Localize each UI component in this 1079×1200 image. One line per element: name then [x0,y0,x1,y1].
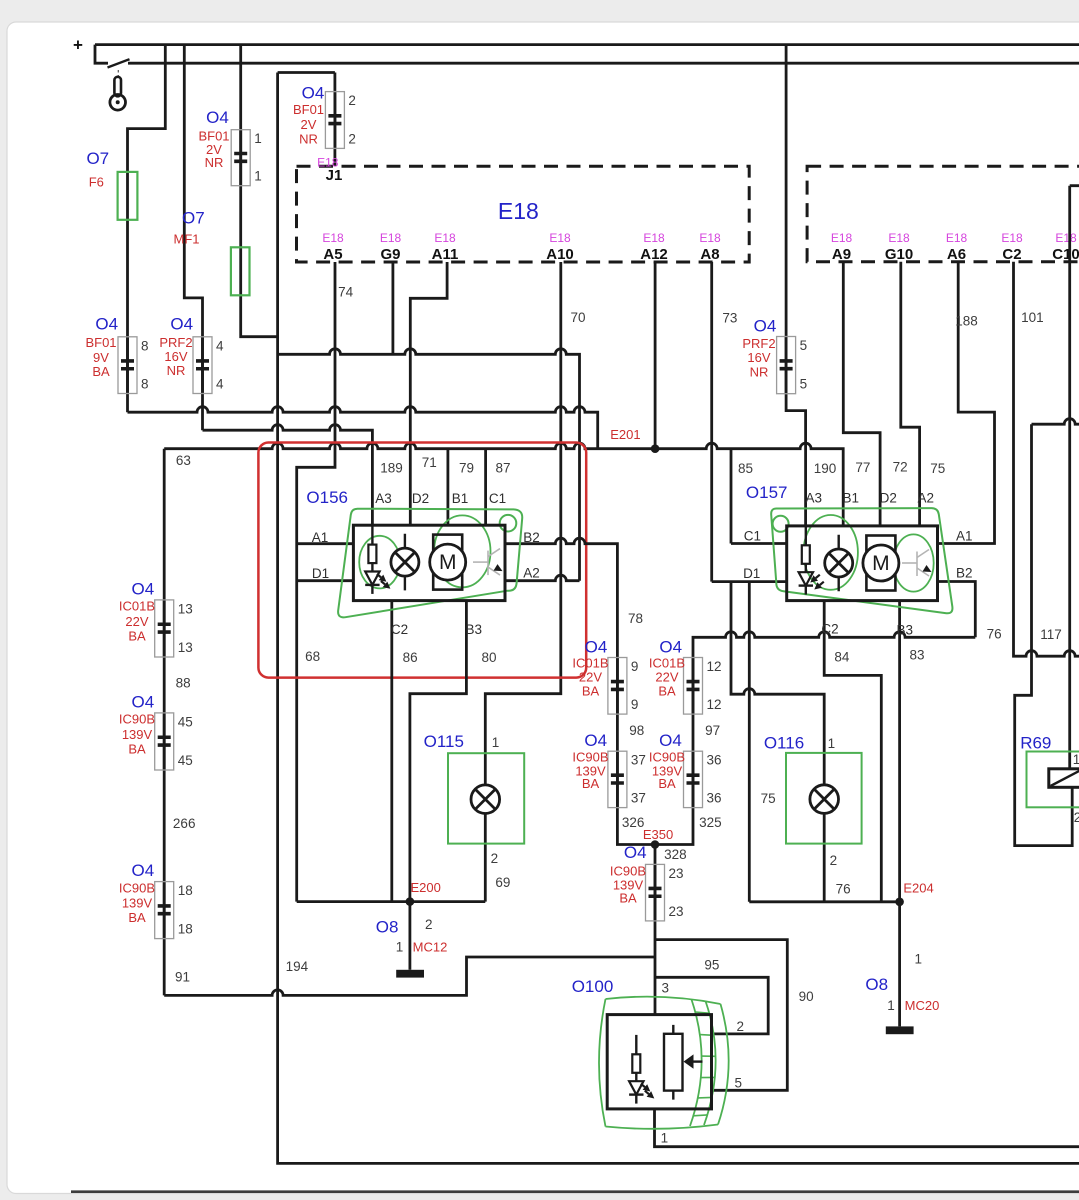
svg-text:37: 37 [631,753,646,768]
wire to R69 coil return [1015,424,1072,845]
wire connector to J1 pin [333,73,336,167]
svg-text:A11: A11 [432,246,459,263]
wire bus row 2 [128,407,598,449]
svg-text:12: 12 [707,697,722,712]
connector O4 IC01B 22V BA left [119,579,193,657]
svg-text:O4: O4 [132,861,155,880]
svg-text:C10: C10 [1052,246,1079,263]
svg-text:71: 71 [422,455,437,470]
module O157 box [787,526,938,601]
wire 90 to O100 pin 5 [655,940,787,1091]
svg-text:E18: E18 [831,231,853,245]
wire MF1 column [241,45,278,337]
svg-text:B3: B3 [897,623,914,638]
svg-text:2: 2 [1074,810,1079,825]
svg-text:E18: E18 [699,231,721,245]
ground O8 MC20 [886,1026,914,1034]
svg-text:C2: C2 [1002,246,1021,263]
svg-text:BA: BA [619,891,637,906]
svg-text:A3: A3 [805,490,822,505]
svg-text:83: 83 [909,648,924,663]
svg-text:E18: E18 [1055,231,1077,245]
svg-text:E204: E204 [903,880,933,895]
svg-text:68: 68 [305,649,320,664]
LED indicator in O157 [799,526,824,595]
svg-text:37: 37 [631,791,646,806]
svg-text:90: 90 [799,989,814,1004]
svg-text:22V: 22V [125,614,148,629]
svg-text:45: 45 [178,753,193,768]
svg-text:NR: NR [205,155,224,170]
svg-text:A5: A5 [323,246,342,263]
wire 85 branch to O157 C1 [731,449,787,544]
svg-text:A1: A1 [312,530,329,545]
wire 190 column [786,45,806,526]
wire 71 A11 to O156 D2 [410,262,447,525]
svg-text:117: 117 [1040,627,1062,642]
svg-text:194: 194 [286,959,309,974]
svg-text:O116: O116 [764,734,804,753]
svg-text:O4: O4 [585,637,608,656]
connector O4 BF01 9V BA [85,315,148,394]
connector O4 IC90B 139V BA mid [572,731,646,807]
svg-text:1: 1 [254,169,262,184]
svg-text:O4: O4 [659,731,682,750]
svg-text:188: 188 [955,313,978,328]
fuse O7 MF1 [231,247,250,295]
lamp O115 [471,785,500,814]
wire 101 C2 down and right [1014,262,1079,657]
module O156 box [353,525,505,600]
svg-text:189: 189 [380,461,403,476]
fuse O7 F6 [118,172,138,220]
svg-text:101: 101 [1021,310,1044,325]
connector O4 PRF2 16V NR right [742,317,807,394]
wire + supply rail (top bus 1) [95,43,1079,46]
connector O4 IC90B 139V BA mid right [649,731,722,807]
svg-text:O4: O4 [206,108,229,127]
svg-text:A2: A2 [917,490,934,505]
LED indicator in O156 [365,525,390,594]
svg-text:87: 87 [495,460,510,475]
wire E204 row [749,900,899,903]
svg-text:69: 69 [495,875,510,890]
wire O156 pin D1 row [297,579,354,582]
connector O4 PRF2 16V NR left [159,315,224,394]
svg-text:O4: O4 [624,843,647,862]
svg-text:13: 13 [178,640,193,655]
svg-text:74: 74 [338,285,354,300]
svg-text:O100: O100 [572,977,614,996]
svg-text:1: 1 [887,998,895,1013]
wire 1 to ground MC20 [898,902,901,1027]
svg-text:BA: BA [128,910,146,925]
node E201 [651,444,660,453]
svg-text:139V: 139V [122,896,153,911]
wire 73/85 A8 down [710,262,713,582]
svg-text:E18: E18 [498,198,539,224]
svg-text:139V: 139V [122,727,153,742]
svg-text:1: 1 [254,131,262,146]
wire O100 pin 1 bus [655,1109,1079,1147]
svg-text:9: 9 [631,659,639,674]
svg-text:O4: O4 [754,317,777,336]
svg-text:E18: E18 [888,231,910,245]
svg-text:O4: O4 [659,637,682,656]
svg-text:E18: E18 [434,231,456,245]
svg-text:O157: O157 [746,483,788,502]
svg-text:J1: J1 [326,167,343,184]
wire bus E201 row to O157 B1 [164,443,843,526]
svg-text:IC01B: IC01B [572,655,608,670]
svg-text:190: 190 [814,461,837,476]
svg-text:B1: B1 [452,491,469,506]
wire 117 C10 to relay R69 [1070,186,1079,769]
svg-text:1: 1 [396,940,404,955]
svg-text:76: 76 [987,626,1002,641]
svg-text:E18: E18 [946,231,968,245]
lamp unit O116 [786,753,862,844]
connector O4 IC01B 22V BA mid [572,637,638,714]
svg-text:E200: E200 [411,880,441,895]
wire 83 O157 B3 to E204 [898,601,901,902]
svg-text:E18: E18 [380,231,402,245]
svg-text:23: 23 [669,866,684,881]
wire 74 A5 to A1/D1/68/E200 [297,262,335,902]
wire 79 to O156 B1 [446,449,449,526]
svg-text:PRF2: PRF2 [742,336,775,351]
wire 97 row to connector 12 [655,632,975,845]
lock unit O100 green barrel [599,997,729,1129]
svg-text:O4: O4 [95,315,118,334]
schematic page bottom frame line [71,1190,1079,1193]
wire A12 to E201 [654,262,657,449]
svg-text:22V: 22V [579,670,602,685]
wire 75 branch down [748,582,751,902]
svg-text:A12: A12 [640,246,668,263]
svg-text:O115: O115 [424,732,464,751]
svg-text:2: 2 [348,131,356,146]
svg-text:IC01B: IC01B [119,599,155,614]
wire 80 O156 B3 down [410,601,467,902]
wire O156 A2 row [505,575,580,581]
svg-text:2: 2 [737,1019,745,1034]
svg-text:77: 77 [855,460,870,475]
connector O4 IC01B 22V BA mid right [649,637,722,714]
transistor in O156 [473,549,503,576]
svg-text:F6: F6 [89,174,104,189]
svg-text:9V: 9V [93,350,109,365]
svg-text:75: 75 [930,461,945,476]
wire bus row 1 to O156 A2 [278,349,580,581]
node E204 [895,898,904,907]
svg-text:E201: E201 [610,427,640,442]
wire 70 A10 to O115 [485,262,561,902]
svg-text:80: 80 [481,650,496,665]
svg-text:63: 63 [176,453,191,468]
svg-text:22V: 22V [655,670,678,685]
wire PRF2 column [184,45,202,431]
svg-text:13: 13 [178,601,193,616]
wire main vertical column 194 / bottom bus [278,73,1079,1164]
svg-text:8: 8 [141,338,149,353]
wire G9 to bus row 1 [391,262,394,354]
svg-text:86: 86 [403,650,418,665]
svg-text:E18: E18 [322,231,344,245]
svg-text:A10: A10 [546,246,574,263]
wire 86 O156 C2 down [390,601,393,902]
svg-text:O4: O4 [132,579,155,598]
svg-text:1: 1 [828,736,836,751]
svg-text:12: 12 [707,659,722,674]
svg-text:BF01: BF01 [85,335,116,350]
wire bus row 3 / 189 to O156 A3 [203,425,373,526]
svg-text:88: 88 [176,675,191,690]
wire 328 to O100 pin 3 [654,845,657,1015]
relay R69 [1027,752,1079,808]
wire O157 pin D1 row [712,580,787,583]
svg-text:16V: 16V [747,350,770,365]
svg-text:G10: G10 [885,246,913,263]
lamp O116 [810,785,839,814]
svg-text:BA: BA [92,364,110,379]
svg-text:2: 2 [491,851,499,866]
svg-text:1: 1 [492,735,500,750]
svg-text:MC20: MC20 [905,998,940,1013]
svg-text:72: 72 [893,460,908,475]
svg-text:BA: BA [658,776,676,791]
connector O4 BF01 2V NR #1 [198,108,261,186]
LED indicator in O100 [629,1035,654,1104]
svg-text:A6: A6 [947,246,966,263]
svg-text:2V: 2V [301,117,317,132]
svg-text:C2: C2 [821,622,838,637]
svg-text:18: 18 [178,922,193,937]
svg-text:76: 76 [836,882,851,897]
sensor element in O100 [664,1025,703,1100]
svg-text:O8: O8 [376,918,399,937]
svg-text:IC90B: IC90B [610,864,646,879]
wire to O100 pin 2 [655,977,768,1034]
svg-text:A1: A1 [956,529,973,544]
connector O4 IC90B 139V BA left low [119,861,193,939]
svg-text:O4: O4 [170,315,193,334]
wire to ground MC12 [408,902,411,970]
svg-text:2: 2 [425,917,433,932]
svg-text:84: 84 [834,649,850,664]
svg-text:M: M [872,552,890,575]
wire 84 O157 C2 down [824,601,881,902]
svg-text:70: 70 [570,310,585,325]
svg-text:78: 78 [628,611,643,626]
svg-text:O156: O156 [306,488,348,507]
svg-text:91: 91 [175,970,190,985]
node E350 [651,840,660,849]
svg-text:97: 97 [705,723,720,738]
svg-text:IC90B: IC90B [119,880,155,895]
svg-text:MF1: MF1 [174,232,200,247]
svg-text:BA: BA [658,684,676,699]
svg-text:R69: R69 [1020,733,1051,752]
svg-text:IC90B: IC90B [119,712,155,727]
svg-text:C1: C1 [489,491,506,506]
svg-text:D2: D2 [412,491,429,506]
motor M in O156 [430,535,466,590]
svg-text:73: 73 [722,310,737,325]
svg-text:75: 75 [761,791,776,806]
connector box E18 right (A9/G10/A6/C2/C10) [807,166,1079,261]
connector box E18 (J1/A5/G9/A11/A10/A12/A8) [297,166,750,262]
svg-text:BF01: BF01 [293,102,324,117]
svg-text:O4: O4 [132,692,155,711]
svg-text:85: 85 [738,461,753,476]
svg-text:B2: B2 [523,530,540,545]
wire 87 to O156 C1 [484,449,487,526]
svg-text:23: 23 [669,904,684,919]
svg-text:O7: O7 [182,209,205,228]
svg-text:1: 1 [661,1131,669,1146]
svg-text:B3: B3 [466,622,483,637]
svg-text:45: 45 [178,714,193,729]
svg-text:16V: 16V [164,349,187,364]
svg-text:8: 8 [141,377,149,392]
connector O4 BF01 2V NR #2 [293,83,356,148]
wire 78/98/326 O156 B2 to E350 [505,538,655,844]
svg-text:BA: BA [128,629,146,644]
lamp in O157 [825,549,853,577]
wire 91/95 link [164,957,655,995]
wire F6 column [128,45,166,413]
svg-text:3: 3 [661,981,669,996]
svg-text:E18: E18 [643,231,665,245]
svg-text:9: 9 [631,697,639,712]
svg-text:NR: NR [167,363,186,378]
svg-text:95: 95 [704,958,719,973]
svg-text:4: 4 [216,338,224,353]
svg-text:C1: C1 [744,529,761,544]
svg-text:O7: O7 [86,149,109,168]
svg-text:IC01B: IC01B [649,655,685,670]
module O156 key fob outline [338,509,522,618]
svg-text:O4: O4 [302,83,325,102]
connector O4 IC90B 139V BA low [610,843,684,921]
svg-text:M: M [439,551,457,574]
svg-text:325: 325 [699,815,722,830]
module O157 key fob outline [771,508,952,613]
svg-text:E18: E18 [1001,231,1023,245]
svg-text:A9: A9 [832,246,851,263]
svg-text:D1: D1 [312,566,329,581]
svg-text:A2: A2 [523,565,540,580]
svg-text:1: 1 [915,951,923,966]
wire right feed row [1032,419,1079,425]
svg-text:A8: A8 [700,246,719,263]
svg-text:E350: E350 [643,827,673,842]
lamp in O156 [391,548,419,576]
motor M in O157 [863,536,899,591]
svg-text:36: 36 [707,753,722,768]
svg-text:MC12: MC12 [413,940,448,955]
svg-text:1: 1 [1073,752,1079,767]
svg-text:18: 18 [178,883,193,898]
wire switched rail (top bus 2) [128,62,1079,65]
svg-text:BA: BA [582,776,600,791]
wire 188 A6 to O157 A1 [938,262,995,544]
transistor in O157 [902,550,932,577]
svg-text:98: 98 [629,723,644,738]
lock unit O100 box [607,1015,711,1109]
lamp unit O115 [448,753,524,843]
svg-text:2: 2 [348,93,356,108]
wire branch to J1 connector [278,71,335,74]
wire O156 pin A1 row [297,542,354,545]
ground O8 MC12 [396,970,424,978]
wire E200 row [297,900,486,903]
svg-text:266: 266 [173,816,196,831]
svg-text:E18: E18 [549,231,571,245]
svg-text:O4: O4 [584,731,607,750]
ignition switch blade [108,59,130,67]
svg-text:B1: B1 [842,490,859,505]
svg-text:5: 5 [735,1076,743,1091]
svg-text:328: 328 [664,847,687,862]
svg-text:+: + [73,36,83,55]
wire 75 G10 to O157 A2 [901,262,920,526]
svg-text:C2: C2 [391,622,408,637]
svg-text:B2: B2 [956,566,973,581]
svg-text:2: 2 [830,853,838,868]
wire lamp stubs O157 [838,535,840,592]
svg-text:4: 4 [216,377,224,392]
connector O4 IC90B 139V BA left [119,692,193,770]
wire 63/88/266/91 column [163,449,166,996]
svg-text:79: 79 [459,460,474,475]
svg-text:D1: D1 [743,566,760,581]
wire 76 to O116 pin1 [731,582,824,902]
svg-text:D2: D2 [880,490,897,505]
wire switch feed [95,45,108,64]
node E200 [406,897,415,906]
svg-text:NR: NR [750,365,769,380]
svg-text:O8: O8 [865,975,888,994]
svg-text:PRF2: PRF2 [159,335,192,350]
wire lamp stubs O156 [404,534,406,591]
svg-text:BA: BA [582,684,600,699]
svg-text:G9: G9 [380,246,400,263]
ignition key symbol [110,70,126,110]
svg-text:BA: BA [128,742,146,757]
svg-text:5: 5 [800,338,808,353]
red highlight frame around O156 [258,443,586,678]
svg-text:A3: A3 [375,491,392,506]
wire 72 A9 to O157 D2 [843,262,880,526]
svg-text:326: 326 [622,815,645,830]
svg-text:5: 5 [800,377,808,392]
svg-text:36: 36 [707,791,722,806]
svg-text:NR: NR [299,131,318,146]
wire O157 B2 down [938,582,976,638]
